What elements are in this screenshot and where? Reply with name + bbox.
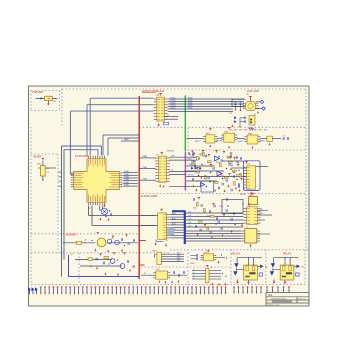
svg-text:MICP: MICP <box>195 141 200 143</box>
svg-text:SIM300: SIM300 <box>167 150 175 152</box>
svg-text:R24: R24 <box>216 162 219 164</box>
svg-text:Sheet 1 of 1: Sheet 1 of 1 <box>268 304 281 307</box>
svg-text:RELAY2: RELAY2 <box>283 252 292 255</box>
svg-text:Q2: Q2 <box>111 238 114 240</box>
svg-text:R31: R31 <box>193 208 196 210</box>
svg-text:RESET: RESET <box>33 155 42 159</box>
svg-text:VSIM: VSIM <box>190 263 195 265</box>
svg-text:RELAY1: RELAY1 <box>232 252 241 255</box>
svg-text:C9: C9 <box>283 135 285 137</box>
svg-text:C12: C12 <box>229 113 232 115</box>
svg-text:OUTR: OUTR <box>188 175 194 177</box>
svg-text:Title: Title <box>268 293 273 297</box>
svg-text:SW1: SW1 <box>37 164 41 166</box>
svg-text:AUDIO-AMP: AUDIO-AMP <box>141 194 158 198</box>
svg-text:SIO: SIO <box>177 260 181 262</box>
svg-text:SPKN: SPKN <box>260 140 266 142</box>
svg-text:GSM MODULE: GSM MODULE <box>271 299 286 301</box>
svg-text:DTR: DTR <box>171 155 176 157</box>
svg-text:R28: R28 <box>220 175 223 177</box>
svg-text:PWR: PWR <box>143 167 148 169</box>
svg-text:J4: J4 <box>210 267 212 269</box>
svg-text:C41: C41 <box>219 206 222 208</box>
svg-text:VBAT: VBAT <box>124 138 130 141</box>
svg-text:RXD: RXD <box>188 107 193 109</box>
svg-text:RXD: RXD <box>188 158 193 160</box>
svg-text:Rev 1.0: Rev 1.0 <box>299 299 307 301</box>
svg-text:BUZZER: BUZZER <box>66 234 76 237</box>
svg-text:R32: R32 <box>207 216 210 218</box>
svg-text:C31: C31 <box>228 158 231 160</box>
svg-text:SPKP: SPKP <box>238 141 244 143</box>
svg-text:SPKR: SPKR <box>240 194 246 196</box>
svg-text:Q1: Q1 <box>84 240 87 242</box>
svg-text:TXD1: TXD1 <box>170 107 176 109</box>
svg-text:PWR-KEY: PWR-KEY <box>33 91 45 94</box>
svg-text:MICN: MICN <box>217 140 222 142</box>
svg-text:ANT-SW: ANT-SW <box>247 89 259 93</box>
svg-text:VBAT: VBAT <box>143 155 149 158</box>
svg-text:C34: C34 <box>196 181 199 183</box>
svg-text:U2 MC9S08: U2 MC9S08 <box>75 155 89 158</box>
